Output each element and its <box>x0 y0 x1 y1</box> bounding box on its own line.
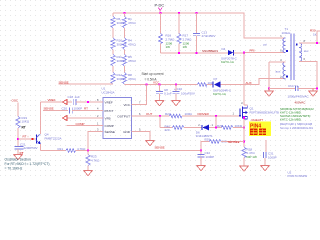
resistor R1 47K <box>123 17 137 29</box>
svg-text:PDPT36N855E3MXLFTB: PDPT36N855E3MXLFTB <box>250 110 280 114</box>
wire drain jog <box>244 104 247 106</box>
svg-text:P-DC: P-DC <box>155 3 165 8</box>
annotation blue parts block <box>280 122 313 130</box>
capacitor C13 47uF450V <box>193 30 215 38</box>
node VREF <box>48 98 56 102</box>
svg-text:0.1uF: 0.1uF <box>164 92 172 96</box>
svg-text:4.7KΩ: 4.7KΩ <box>91 159 100 163</box>
junction on bus at R17 <box>178 12 180 14</box>
svg-text:UC2842A: UC2842A <box>102 91 115 95</box>
svg-text:PC817C/NSZW: PC817C/NSZW <box>288 174 308 178</box>
svg-text:COMP: COMP <box>76 122 85 126</box>
optocoupler U2 label <box>288 170 308 178</box>
junction D6 gate branch <box>215 126 217 128</box>
junction Q1 source pin <box>243 117 245 119</box>
node SENSE (pin4 row) <box>44 107 54 111</box>
svg-text:1000P: 1000P <box>206 155 215 159</box>
wire R24 to gate <box>182 115 240 117</box>
transformer T1 100uH <box>264 27 309 80</box>
wire bottom sense row <box>41 150 67 152</box>
svg-text:RT: RT <box>22 125 26 129</box>
svg-text:PRI: PRI <box>250 48 255 52</box>
wire C20 to pin4 <box>72 110 103 112</box>
node SENSE (mosfet) <box>228 140 240 144</box>
svg-text:SENSE: SENSE <box>155 146 165 150</box>
svg-text:+ C10: + C10 <box>174 87 182 91</box>
wire aux return down <box>268 62 270 89</box>
wire R16 top <box>160 13 162 34</box>
resistor R16 2.7M <box>159 34 176 49</box>
resistor R24 100ohm <box>165 112 193 118</box>
junction gate node <box>215 115 217 117</box>
junction snubber R17 <box>178 52 180 54</box>
ground (R23) <box>84 171 93 176</box>
wire Q1 drain <box>243 53 245 105</box>
svg-text:KHTC-1A: KHTC-1A <box>221 60 234 64</box>
svg-text:RHEAT?: RHEAT? <box>252 118 264 122</box>
wire aux pin3 <box>269 61 286 63</box>
capacitor C8 0.1uF <box>156 85 172 101</box>
svg-text:Oscillator Section: Oscillator Section <box>5 157 31 161</box>
svg-text:1000pF400VAC: 1000pF400VAC <box>288 94 310 98</box>
wire secondary top out <box>299 42 320 44</box>
junction on bus at startup chain <box>124 12 126 14</box>
wire VFB row <box>68 117 104 119</box>
svg-text:1W: 1W <box>166 45 171 49</box>
wire C13 bottom <box>196 36 198 53</box>
wire R40 to D6 <box>184 127 202 129</box>
node RT <box>84 107 88 111</box>
wire R29 to source node <box>221 141 244 143</box>
node SENSE (divider) <box>59 80 69 84</box>
svg-text:OSC: OSC <box>12 99 19 103</box>
junction VCC rail C8 <box>158 83 160 85</box>
capacitor C14 Y1 1000pF400VAC <box>288 84 310 98</box>
ground (U1 pin5) <box>146 141 155 146</box>
ground (C8) <box>155 101 164 106</box>
resistor R10 300K <box>111 38 127 50</box>
annotation RHEAT <box>252 118 264 122</box>
capacitor C18 0.1uF <box>68 95 81 105</box>
wire vcc chain bottom to rail <box>124 83 126 86</box>
junction VREF row <box>87 101 89 103</box>
wire pin7 to VCC rail <box>132 85 147 105</box>
svg-text:C20: C20 <box>62 107 68 111</box>
wire sense divider bottom <box>59 83 114 85</box>
wire RT row <box>43 110 68 112</box>
wire D6 to gate branch <box>209 127 222 129</box>
svg-text:OUT: OUT <box>146 112 153 116</box>
svg-text:SNUBBER1: SNUBBER1 <box>202 49 219 53</box>
node OUT <box>146 112 153 116</box>
svg-text:KHTC-1A: KHTC-1A <box>213 92 226 96</box>
svg-text:R24: R24 <box>165 112 171 116</box>
resistor R6 300K <box>111 17 127 29</box>
svg-text:VREF: VREF <box>48 98 56 102</box>
resistor R17 2.7M <box>177 34 192 49</box>
wire C13 top <box>196 13 198 33</box>
wire left startup chain top <box>112 13 114 17</box>
svg-text:COMP: COMP <box>105 124 114 128</box>
svg-text:VFB: VFB <box>105 116 111 120</box>
svg-text:sec: sec <box>304 49 309 53</box>
offpage arrow VFB <box>63 115 68 120</box>
annotation 400VAC <box>295 101 307 105</box>
svg-text:R29: R29 <box>205 137 211 141</box>
svg-text:aux: aux <box>276 69 281 73</box>
offpage arrow VREF <box>63 99 68 104</box>
wire secondary bottom return <box>299 62 317 89</box>
svg-text:R26: R26 <box>217 124 223 128</box>
resistor R4 47K <box>123 38 137 50</box>
wire R26 to source <box>233 127 244 129</box>
svg-text:GND: GND <box>123 130 131 134</box>
junction R23 <box>87 149 89 151</box>
capacitor C10 100uF50V <box>172 85 195 101</box>
junction secondary return <box>316 87 318 89</box>
svg-text:Start up current: Start up current <box>142 72 164 76</box>
wire R17 top <box>178 13 180 34</box>
node COMP <box>76 122 85 126</box>
svg-text:220: 220 <box>165 128 170 132</box>
svg-text:100uF50V: 100uF50V <box>181 92 195 96</box>
svg-text:Sxxmp 1 2M43004KGJ01: Sxxmp 1 2M43004KGJ01 <box>280 126 313 130</box>
diode D4 SUF2078-C <box>221 47 238 64</box>
junction sense filter <box>200 149 202 151</box>
wire VCC rail right part <box>207 84 214 86</box>
svg-text:VCC: VCC <box>123 103 130 107</box>
svg-text:47KΩ: 47KΩ <box>128 21 136 25</box>
annotation start up current <box>142 72 164 82</box>
wire C18 to pin8 <box>76 101 103 103</box>
wire sense filter row <box>201 142 210 151</box>
capacitor C32 1000P <box>197 151 214 166</box>
resistor R19 10K <box>16 116 30 130</box>
wire secondary top corner up <box>317 31 320 43</box>
wire right startup chain top <box>124 13 126 17</box>
svg-text:PMBT2222A: PMBT2222A <box>45 137 62 141</box>
wire R16 bottom <box>160 44 162 54</box>
junction PRI <box>243 52 245 54</box>
svg-text:KHTC-12b MBD.: KHTC-12b MBD. <box>280 118 302 122</box>
svg-text:OUTPUT: OUTPUT <box>117 114 130 118</box>
svg-text:SENSE: SENSE <box>105 130 116 134</box>
svg-text:400VAC: 400VAC <box>295 101 307 105</box>
svg-text:1W: 1W <box>183 45 188 49</box>
ground (C21) <box>14 155 23 160</box>
wire C21 to ground <box>17 149 19 155</box>
node SNUBBER1 <box>202 49 219 53</box>
svg-text:1K: 1K <box>313 33 317 37</box>
wire pin5 GND <box>132 132 151 141</box>
wire R40 branch down <box>159 116 161 128</box>
svg-text:47KΩ: 47KΩ <box>128 59 136 63</box>
svg-text:AUX: AUX <box>246 81 252 85</box>
resistor R5 47K <box>123 55 137 67</box>
wire COMP row <box>67 125 104 127</box>
svg-text:C18 .1uF: C18 .1uF <box>68 95 81 99</box>
svg-text:pri: pri <box>264 42 268 46</box>
resistor R40 220 <box>165 124 185 132</box>
wire Q4 base <box>18 138 36 140</box>
resistor R11 300K <box>111 55 127 67</box>
wire D4 to PRI junction <box>233 52 244 54</box>
wire PRI to transformer pin5 <box>244 52 286 54</box>
wire pin3 down <box>88 132 103 151</box>
node output corner text <box>310 29 317 37</box>
svg-text:2200P50V: 2200P50V <box>24 146 38 150</box>
annotation green parts block <box>280 107 314 122</box>
svg-text:RT/CT: RT/CT <box>105 109 114 113</box>
resistor R26 10K <box>217 124 243 130</box>
wire R40 row left <box>160 127 173 129</box>
svg-text:47uF450V: 47uF450V <box>202 34 216 38</box>
svg-text:PIN4: PIN4 <box>250 123 261 129</box>
junction VCC rail C10 <box>175 83 177 85</box>
ground (C10) <box>172 101 181 106</box>
annotation oscillator section <box>5 157 50 170</box>
wire Q4 collector up <box>40 102 42 134</box>
svg-text:RT: RT <box>84 107 88 111</box>
junction Q4 base dot <box>32 138 34 140</box>
wire OSC down <box>17 103 19 117</box>
resistor R7 10ohm <box>198 81 214 87</box>
op-amp U1 UC2842A box <box>97 87 141 139</box>
node RT arrow <box>23 134 30 138</box>
ground (aux) <box>265 89 274 97</box>
annotation PIN4 heatsink highlight <box>249 122 271 137</box>
node SENSE (bottom rail) <box>155 146 165 150</box>
svg-text:R21: R21 <box>58 147 64 151</box>
svg-text:D7: D7 <box>214 77 218 81</box>
node DRIVER <box>198 112 210 116</box>
svg-text:Q1: Q1 <box>250 106 254 110</box>
wire VCC rail <box>125 84 198 86</box>
wire VREF row <box>41 101 72 103</box>
wire AUX rail <box>220 79 285 85</box>
wire Q4 emitter down <box>40 144 42 151</box>
svg-text:C14 Y1: C14 Y1 <box>288 84 298 88</box>
node P-DC <box>155 3 165 14</box>
svg-text:RT ↑: RT ↑ <box>23 134 30 138</box>
svg-text:VREF: VREF <box>105 100 113 104</box>
ground (secondary) <box>309 89 318 97</box>
resistor R12 300K <box>111 73 127 85</box>
svg-text:= 70.16KHz: = 70.16KHz <box>5 166 23 170</box>
svg-text:D4: D4 <box>222 47 226 51</box>
resistor R8 47K <box>123 73 137 85</box>
svg-text:100uH: 100uH <box>282 31 291 35</box>
capacitor C21 2200P50V <box>15 143 38 155</box>
wire R19 to junction <box>17 128 19 147</box>
svg-text:100Ω: 100Ω <box>185 112 193 116</box>
wire Y-cap to secondary return <box>298 88 317 90</box>
svg-text:47KΩ: 47KΩ <box>128 43 136 47</box>
junction source R26 <box>243 126 245 128</box>
capacitor C20 1000P <box>62 107 83 114</box>
svg-text:1000P: 1000P <box>268 156 277 160</box>
junction aux ground <box>268 87 270 89</box>
wire bus drop to transformer pin1 <box>244 13 286 38</box>
wire chain segment <box>112 66 114 73</box>
resistor R23 4.7K <box>86 151 100 171</box>
junction VCC rail pin7 <box>145 83 147 85</box>
svg-text:SENSE◂: SENSE◂ <box>228 140 240 144</box>
wire ground rail to Y-cap <box>269 88 295 90</box>
transistor Q4 PMBT2222A <box>36 133 61 145</box>
wire chain segment <box>112 50 114 55</box>
resistor R28 0.47 <box>242 147 257 159</box>
transistor Q1 MOSFET <box>233 101 280 119</box>
svg-text:47KΩ: 47KΩ <box>128 77 136 81</box>
junction on bus at C13 <box>196 12 198 14</box>
diode D7 SUF1054R-C <box>213 77 232 96</box>
svg-text:For RT>5KΩ f = 1.72/(RT*CT): For RT>5KΩ f = 1.72/(RT*CT) <box>5 162 50 166</box>
node VCC <box>153 81 160 85</box>
junction on bus at R16 <box>160 12 162 14</box>
resistor R21 4.7K <box>58 147 87 153</box>
ground (C32) <box>197 166 206 171</box>
svg-text:10KΩ: 10KΩ <box>22 120 30 124</box>
svg-text:DRIVER: DRIVER <box>198 112 210 116</box>
junction RT node <box>17 138 19 140</box>
wire gate branch down <box>215 116 217 128</box>
junction snubber C13 <box>196 52 198 54</box>
wire R21 to junction <box>76 150 202 152</box>
ground (C31) <box>261 166 270 171</box>
wire OUT row <box>132 115 170 117</box>
node OSC <box>12 99 19 103</box>
node AUX <box>246 81 252 85</box>
node PRI <box>250 48 255 52</box>
junction source sense <box>243 140 245 142</box>
junction secondary out <box>316 42 318 44</box>
svg-text:DIP 1W: DIP 1W <box>247 155 257 159</box>
ground (R28) <box>240 166 249 171</box>
wire R17 bottom <box>178 44 180 54</box>
capacitor C31 1000P <box>263 140 276 166</box>
wire chain segment <box>112 28 114 38</box>
junction OUT branch <box>159 115 161 117</box>
wire snubber rail <box>161 52 228 54</box>
resistor R29 2K2 <box>205 137 228 143</box>
wire Q1 source down <box>243 119 245 147</box>
diode D6 1N4148WT1 <box>196 123 214 138</box>
wire R28 to ground <box>243 158 245 167</box>
wire P-DC bus <box>113 12 245 14</box>
